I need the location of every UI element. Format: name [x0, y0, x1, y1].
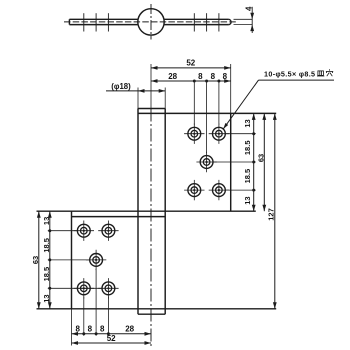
svg-text:8: 8 [198, 72, 203, 81]
svg-text:18.5: 18.5 [42, 267, 51, 282]
svg-text:18.5: 18.5 [42, 238, 51, 253]
svg-text:8: 8 [100, 325, 105, 334]
svg-text:52: 52 [107, 334, 116, 343]
svg-text:13: 13 [243, 196, 252, 204]
svg-text:13: 13 [42, 294, 51, 302]
svg-text:10-φ5.5× φ8.5: 10-φ5.5× φ8.5 [264, 70, 315, 79]
svg-text:28: 28 [125, 325, 134, 334]
svg-text:28: 28 [168, 72, 177, 81]
svg-text:8: 8 [75, 325, 80, 334]
svg-text:8: 8 [223, 72, 228, 81]
svg-text:13: 13 [243, 119, 252, 127]
svg-text:18.5: 18.5 [243, 140, 252, 155]
svg-text:63: 63 [31, 256, 40, 264]
svg-text:8: 8 [211, 72, 216, 81]
svg-text:52: 52 [186, 59, 195, 68]
svg-text:63: 63 [257, 154, 266, 162]
svg-text:8: 8 [88, 325, 93, 334]
svg-text:13: 13 [42, 217, 51, 225]
svg-text:18.5: 18.5 [243, 169, 252, 184]
svg-text:(φ18): (φ18) [111, 82, 131, 91]
svg-text:4: 4 [244, 6, 253, 11]
svg-text:127: 127 [267, 208, 276, 221]
